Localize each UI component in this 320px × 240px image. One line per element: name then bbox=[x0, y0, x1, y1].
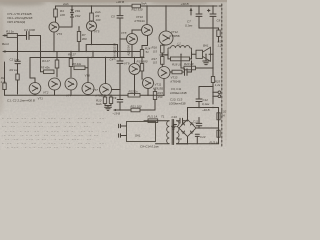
wire between R16 R17 output node bbox=[161, 53, 163, 57]
bridge bottom to minus bus bbox=[187, 137, 189, 144]
junction dot ground stem bbox=[205, 54, 206, 55]
svg-text:SA1: SA1 bbox=[135, 134, 141, 138]
svg-text:0,1мк: 0,1мк bbox=[185, 24, 193, 28]
C8 plus sign bbox=[208, 9, 210, 11]
svg-text:VT3: VT3 bbox=[57, 32, 63, 36]
svg-text:Т1: Т1 bbox=[161, 115, 165, 119]
svg-text:BA1: BA1 bbox=[203, 43, 209, 47]
ground symbol under R10 R11 bbox=[105, 106, 111, 108]
transistor VT4 bbox=[65, 78, 77, 90]
junction dot x213 y92.3 bbox=[212, 92, 213, 93]
junction dot x213 y28 bbox=[212, 27, 213, 28]
transformer core bbox=[172, 120, 173, 145]
wire C3 to first stage bbox=[29, 35, 41, 37]
transistor VT7 bbox=[100, 84, 112, 96]
svg-text:·– ––– ··– –·– –– ·–– –– ·· ––: ·– ––– ··– –·– –– ·–– –– ·· ––· ·– –– ··… bbox=[2, 134, 98, 137]
resistor R8 horizontal bbox=[74, 66, 85, 70]
svg-text:–·–– ·– ––· –– ··– ––– ·–– –·: –·–– ·– ––· –– ··– ––– ·–– –· ·–– –– ·· … bbox=[1, 142, 106, 145]
junction dot x147 rail bbox=[146, 5, 147, 6]
junction dot x166 rail bbox=[165, 5, 166, 6]
svg-text:–40 В: –40 В bbox=[201, 108, 210, 112]
junction dot x218.5 y128 bbox=[218, 127, 219, 128]
capacitor C12 column bbox=[198, 87, 200, 108]
svg-text:C9: C9 bbox=[113, 96, 117, 100]
wire speaker to right column bbox=[209, 53, 213, 55]
svg-text:0,5: 0,5 bbox=[153, 49, 157, 53]
junction dot speaker node bbox=[212, 54, 213, 55]
resistor R14 bbox=[140, 50, 143, 58]
resistor R11 vertical below ground rail bbox=[110, 95, 112, 105]
svg-text:0,1мк: 0,1мк bbox=[202, 102, 210, 106]
junction dot x199 y128 bbox=[198, 127, 199, 128]
ground at speaker return bbox=[205, 54, 207, 61]
svg-text:1,2к: 1,2к bbox=[1, 80, 7, 84]
branch x117.5 from top box wire down across rails bbox=[117, 45, 119, 58]
wire R17 to VT13 bbox=[161, 64, 163, 66]
VT5 emitter down and corner wire to VT8 bbox=[91, 31, 93, 45]
junction dot x213 y96.2 bbox=[212, 96, 213, 97]
capacitor C11 on bridge output bbox=[198, 118, 200, 129]
svg-text:300: 300 bbox=[82, 37, 87, 41]
vertical feed to R6 bbox=[70, 52, 72, 78]
resistor R10 vertical below ground rail bbox=[104, 95, 106, 105]
svg-text:2мА: 2мА bbox=[62, 2, 69, 6]
VT8 emitter down to mid rail bbox=[131, 45, 133, 58]
svg-text:VD5 КН102Д: VD5 КН102Д bbox=[7, 20, 26, 24]
VT7 base stub bbox=[112, 89, 121, 91]
junction dot x107 y57.5 bbox=[105, 57, 106, 58]
zener VD8 plates on x120 bbox=[117, 100, 123, 103]
svg-text:КТ814А: КТ814А bbox=[135, 19, 145, 23]
svg-text:VD1: VD1 bbox=[75, 9, 81, 13]
fuse FU1 bbox=[144, 120, 148, 122]
svg-text:R5 43к: R5 43к bbox=[41, 66, 51, 70]
svg-text:1000мк×63В: 1000мк×63В bbox=[169, 102, 186, 106]
svg-text:·– ––– ··– –·– –– ·–– –– ·· ––: ·– ––– ··– –·– –– ·–– –– ·· ––· ·– –– ··… bbox=[5, 122, 101, 125]
svg-text:R18 10: R18 10 bbox=[172, 63, 182, 67]
junction dot x187.5 y120.7 bbox=[187, 120, 188, 121]
C7 plates bbox=[196, 14, 202, 16]
zobel capacitor C6 bbox=[185, 69, 188, 76]
transistor VT3 bbox=[49, 22, 59, 32]
second input arrow line bbox=[2, 50, 6, 53]
speaker BA1 bbox=[196, 50, 203, 58]
svg-text:R2 1м: R2 1м bbox=[10, 68, 18, 72]
VT10 emitter down to R14 bbox=[142, 36, 148, 50]
feedback column with C2 and R2 bbox=[17, 36, 19, 95]
svg-text:C3 1000: C3 1000 bbox=[24, 28, 35, 32]
svg-text:С1, С2 2,2мк×400 В: С1, С2 2,2мк×400 В bbox=[7, 99, 35, 103]
center tap ground of secondary bbox=[174, 125, 177, 127]
junction dot input node bbox=[17, 35, 18, 36]
svg-text:0,5: 0,5 bbox=[153, 61, 157, 65]
negative bias bus -19V bbox=[115, 109, 155, 111]
VT3 emitter wire down to mid rail bbox=[53, 32, 55, 52]
junction dot x213 y107.5 bbox=[212, 107, 213, 108]
mains plug X1 prong 2 bbox=[119, 134, 127, 138]
vertical line x120 from rail to PSU bbox=[119, 6, 121, 110]
transistor VT6 bbox=[82, 83, 94, 95]
resistor R4 vertical from rail bbox=[55, 6, 57, 22]
R15 bottom wire toward VT11 bbox=[141, 71, 144, 79]
chassis boundary dashed line bbox=[221, 4, 223, 146]
VT11 emitter down bbox=[147, 89, 149, 96]
inductor L1 bbox=[168, 46, 192, 52]
svg-text:R15 680: R15 680 bbox=[137, 60, 148, 64]
junction dot rail at x72 bbox=[71, 5, 72, 6]
svg-text:VT6: VT6 bbox=[85, 74, 91, 78]
svg-text:КТ805Б: КТ805Б bbox=[170, 34, 180, 38]
svg-text:VT8: VT8 bbox=[121, 31, 127, 35]
fuse FU3 bbox=[218, 128, 220, 130]
svg-text:VD6 КД521А: VD6 КД521А bbox=[112, 43, 116, 60]
svg-text:R1 1к: R1 1к bbox=[6, 30, 14, 34]
capacitor C2 plates bbox=[15, 61, 20, 63]
resistor R20 to ground bus bbox=[181, 54, 184, 68]
junction dot x213 rail bbox=[212, 5, 213, 6]
resistor R6 bbox=[69, 59, 73, 67]
junction dot base wire x79 bbox=[78, 26, 79, 27]
junction dot x120 y94 bbox=[119, 95, 120, 96]
plus40V supply bus bbox=[188, 107, 219, 109]
resistor R17 bbox=[161, 57, 164, 65]
svg-text:VT5: VT5 bbox=[94, 30, 100, 34]
ground rail of amplifier bbox=[5, 94, 121, 96]
VT9 emitter to ground rail bbox=[134, 75, 136, 96]
VT8 base stub to x120 column bbox=[120, 38, 127, 40]
bridge diode ticks bbox=[182, 123, 193, 134]
svg-text:–– ·–– ·· ––– ·– ––· ··– –– ·–: –– ·–– ·· ––– ·– ––· ··– –– ·– ––– ·· ––… bbox=[1, 126, 90, 129]
resistor R22 on ground bus extension bbox=[120, 94, 164, 96]
junction dot x199 y107.5 bbox=[198, 107, 199, 108]
vertical feed to R3 bbox=[56, 52, 58, 78]
C11 plates bbox=[196, 123, 202, 125]
junction dot x199 rail bbox=[198, 5, 199, 6]
svg-text:6А: 6А bbox=[221, 114, 225, 118]
RF capacitor C13 at bridge lower corner bbox=[195, 134, 199, 136]
C12 link wire bbox=[199, 86, 213, 88]
resistor R23 vertical bbox=[154, 89, 156, 110]
svg-text:100: 100 bbox=[96, 18, 101, 22]
svg-text:1000мк×63В: 1000мк×63В bbox=[170, 91, 187, 95]
junction dot x40.5 y48 bbox=[40, 51, 41, 52]
transistor VT9 bbox=[129, 64, 140, 75]
junction dot x132 y57.5 bbox=[131, 57, 132, 58]
transistor VT5 bbox=[87, 21, 97, 31]
wire joining C7 C8 bottoms bbox=[199, 27, 219, 29]
minus bus bbox=[177, 143, 219, 145]
VT9 collector stub to mid rail end bbox=[134, 58, 136, 64]
transformer T1 primary winding bbox=[167, 121, 170, 144]
output terminal stub 1 bbox=[213, 91, 218, 93]
resistor R1 bbox=[7, 34, 18, 38]
VT1 collector wire from rail B bbox=[30, 58, 35, 83]
transistor VT10 bbox=[142, 25, 153, 36]
resistor R3 bbox=[55, 60, 59, 68]
resistor R24 bbox=[218, 28, 220, 30]
secondary bottom wire bbox=[177, 143, 188, 145]
output node wire to L1 bbox=[162, 54, 168, 56]
capacitor C5 plates on x120 bbox=[117, 16, 123, 18]
transistor VT11 bbox=[143, 78, 154, 89]
wire L1 to speaker node bbox=[192, 53, 197, 55]
VT12 collector to rail bbox=[165, 6, 167, 31]
junction dot R20 tap bbox=[180, 54, 181, 55]
resistor R9 vertical from rail bbox=[91, 6, 93, 22]
wire diode chain to VT3 base bbox=[60, 17, 73, 27]
resistor R7 300k hanging from base wire bbox=[78, 27, 80, 52]
capacitor C7 column bbox=[198, 6, 200, 28]
svg-text:150: 150 bbox=[158, 95, 163, 99]
svg-text:C8: C8 bbox=[217, 19, 221, 23]
junction dot x117.5 railA bbox=[117, 51, 118, 52]
junction dot x120 y57.5 bbox=[119, 57, 120, 58]
resistor R18 parallel bbox=[160, 52, 192, 59]
rail dashed continuation top right bbox=[215, 5, 222, 7]
VT1 emitter to ground rail bbox=[34, 94, 36, 95]
junction dot rail x91.5 bbox=[91, 5, 92, 6]
bridge right output wire bbox=[196, 127, 219, 129]
C12 plates bbox=[196, 99, 202, 102]
VT2 emitter bbox=[54, 90, 56, 95]
resistor R2b on left column bbox=[3, 83, 6, 90]
resistor R2 bbox=[16, 74, 19, 80]
mains plug X1 prong 1 bbox=[119, 124, 127, 128]
svg-text:R22 1к: R22 1к bbox=[129, 90, 139, 94]
svg-text:C2 1мк: C2 1мк bbox=[10, 58, 20, 62]
svg-text:VT2: VT2 bbox=[43, 91, 49, 95]
transformer T1 secondary winding bbox=[177, 121, 180, 144]
svg-text:+30 В: +30 В bbox=[116, 0, 124, 4]
transistor VT12 bbox=[159, 31, 173, 45]
svg-text:C13: C13 bbox=[200, 135, 206, 139]
capacitor C3 bbox=[27, 32, 30, 40]
power switch box SA1 bbox=[127, 122, 156, 142]
svg-text:R3 27: R3 27 bbox=[42, 59, 50, 63]
bridge feed up bbox=[187, 108, 189, 120]
output terminal stub 2 bbox=[213, 95, 218, 97]
svg-text:R6 27: R6 27 bbox=[68, 53, 76, 57]
svg-text:R12 510: R12 510 bbox=[132, 7, 143, 11]
svg-text:VT1: VT1 bbox=[38, 96, 44, 100]
zobel resistor R19 bbox=[172, 70, 182, 74]
junction dot x164 y94.2 bbox=[163, 95, 164, 96]
resistor R25 on right column bbox=[211, 77, 214, 83]
junction dot x120 y104.5 bbox=[119, 109, 120, 110]
svg-text:6мА: 6мА bbox=[96, 102, 102, 106]
svg-text:КТ814Б: КТ814Б bbox=[171, 79, 181, 83]
transistor VT8 bbox=[127, 34, 138, 45]
junction dot x148 y94.2 bbox=[147, 95, 148, 96]
transistor VT13 bbox=[158, 67, 170, 79]
svg-text:Вход: Вход bbox=[2, 42, 9, 46]
resistor R12 in series with rail bbox=[132, 4, 141, 8]
diode VD1 bbox=[71, 6, 73, 9]
junction dot x120 rail bbox=[119, 5, 120, 6]
svg-text:–·–– ·– ––· –– ··– ––– ·–– –·: –·–– ·– ––· –– ··– ––– ·–– –· ·–– –– ·· … bbox=[4, 130, 109, 133]
VT7 collector to mid rail bbox=[105, 58, 107, 84]
fuse FU2 bbox=[218, 108, 220, 113]
zobel wire with R19 and C6 bbox=[170, 61, 192, 72]
VT13 emitter down bbox=[163, 79, 165, 96]
svg-text:51: 51 bbox=[146, 50, 150, 54]
junction dot on arrow line bbox=[17, 51, 18, 52]
VT6 collector to mid rail bbox=[87, 58, 89, 83]
VT12 emitter down bbox=[162, 44, 166, 46]
svg-text:КД521А: КД521А bbox=[127, 45, 131, 56]
svg-text:C10: C10 bbox=[172, 115, 178, 119]
secondary top wire to bridge with RF capacitor C10 bbox=[177, 120, 188, 122]
branch x93 between rails bbox=[92, 52, 94, 58]
svg-text:–·–– ·– ––· –– ··– ––– ·–– –·: –·–– ·– ––· –– ··– ––– ·–– –· ·–– –– ·· … bbox=[1, 118, 106, 121]
capacitor C8 column bbox=[212, 6, 214, 54]
svg-text:+30 В: +30 В bbox=[181, 2, 189, 6]
svg-text:–– ·–– ·· ––– ·– ––· ··– –– ·–: –– ·–– ·· ––– ·– ––· ··– –– ·– ––– ·· ––… bbox=[4, 138, 93, 141]
junction dot x93 y57.5 bbox=[87, 57, 88, 58]
junction dot output node bbox=[162, 54, 163, 55]
junction dot x40.5 y57.5 bbox=[40, 57, 41, 58]
junction dot x120 y88.5 bbox=[119, 89, 120, 90]
primary bottom wire to switch box bbox=[156, 143, 170, 145]
C8 plates bbox=[210, 14, 216, 16]
bridge rectifier VD9 diamond bbox=[179, 120, 196, 137]
junction dot x187.5 y143.7 bbox=[187, 143, 188, 144]
input arrow and wire bbox=[2, 34, 6, 37]
resistor R21 bbox=[131, 108, 140, 112]
svg-text:C5: C5 bbox=[111, 15, 115, 19]
svg-text:FU1 1А: FU1 1А bbox=[148, 115, 158, 119]
svg-text:L1: L1 bbox=[178, 41, 182, 45]
svg-text:R21 100: R21 100 bbox=[131, 105, 142, 109]
svg-text:·– ––– ··– –·– –– ·–– –– ·· ––: ·– ––– ··– –·– –– ·–– –– ·· ––· ·– –– ··… bbox=[5, 146, 101, 149]
junction dots rail A bbox=[53, 51, 54, 52]
resistor R16 bbox=[161, 45, 164, 53]
transistor VT1 bbox=[29, 83, 41, 95]
junction dot x213 y68 bbox=[212, 67, 213, 68]
svg-text:VT7: VT7 bbox=[93, 88, 99, 92]
resistor R5 horizontal bbox=[44, 70, 55, 74]
VT10 collector to rail bbox=[146, 6, 148, 25]
right column x213 down to PSU bbox=[212, 54, 214, 104]
svg-text:100: 100 bbox=[60, 13, 65, 17]
resistor R15 bbox=[140, 64, 143, 72]
VT6 emitter bbox=[87, 94, 89, 97]
svg-text:1,2к: 1,2к bbox=[218, 43, 224, 47]
svg-text:–19 В: –19 В bbox=[112, 112, 121, 116]
svg-text:VD2: VD2 bbox=[75, 14, 81, 18]
VT8 collector wire to VT10 base bbox=[132, 30, 142, 34]
vertical from input wire to R5 bbox=[40, 36, 42, 72]
+30V entry arrow bbox=[190, 9, 192, 15]
svg-text:VT9: VT9 bbox=[124, 62, 130, 66]
svg-text:1,2к: 1,2к bbox=[215, 83, 221, 87]
junction dot x91.5 y57.5 bbox=[91, 57, 92, 58]
svg-text:C11: C11 bbox=[193, 120, 198, 124]
+30V supply rail bbox=[56, 5, 216, 7]
junction dots R10 R11 tops bbox=[104, 95, 105, 96]
transistor VT2 bbox=[49, 78, 61, 90]
VT4 emitter bbox=[70, 90, 72, 95]
svg-text:5мА: 5мА bbox=[141, 2, 147, 6]
long mid rail y57.5 bbox=[30, 57, 144, 59]
svg-text:C9–C14 0,1мк: C9–C14 0,1мк bbox=[140, 144, 159, 148]
svg-text:R20 10: R20 10 bbox=[184, 62, 194, 66]
svg-text:R8 43к: R8 43к bbox=[72, 62, 82, 66]
diode VD2 bbox=[70, 14, 73, 17]
